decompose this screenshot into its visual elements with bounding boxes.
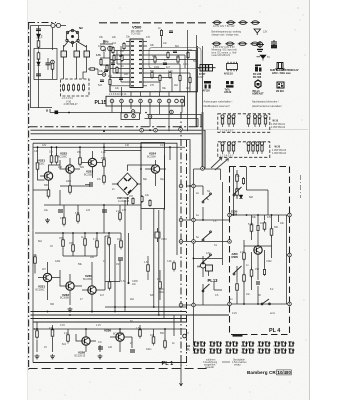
capacitor C502 — [163, 63, 167, 65]
switch S6 — [261, 299, 270, 305]
resistor R401 — [236, 173, 239, 184]
wire PL1 bottom solid — [33, 362, 186, 364]
wire cross 258 — [194, 182, 223, 265]
potentiometer P501 — [101, 46, 106, 51]
pad PL4-3 — [288, 253, 292, 257]
resistor R237 — [34, 255, 37, 266]
resistor R412 — [236, 282, 239, 293]
connector group G7 — [288, 342, 294, 355]
left outer cluster — [100, 40, 113, 65]
junction J10 — [119, 328, 121, 330]
transistor V236 — [116, 333, 124, 341]
wire bus line 5 — [33, 143, 177, 255]
junction J5 — [79, 146, 81, 148]
svg-text:8k2: 8k2 — [175, 45, 180, 48]
connector group G2 — [209, 342, 222, 355]
wire PL1 bottom dashed — [29, 368, 208, 370]
svg-text:2n2: 2n2 — [112, 42, 117, 45]
wire bus faint continuation — [205, 129, 308, 131]
resistor R224 — [103, 158, 106, 169]
pad square S1 — [55, 111, 59, 115]
wire PL4 inner rail 190 — [247, 190, 269, 215]
resistor R508 — [169, 71, 171, 79]
resistor W20-7 — [260, 142, 263, 154]
wire V232 stage — [60, 270, 82, 305]
resistor W10-2 — [227, 115, 230, 127]
symbol lens row2 — [212, 42, 260, 46]
connector group G6 — [274, 342, 287, 355]
svg-text:120: 120 — [108, 346, 113, 349]
capacitor C221 — [102, 210, 107, 212]
capacitor C504 — [111, 63, 115, 65]
diode V2 — [37, 59, 40, 71]
wire PL4 inner rail 211 — [230, 214, 290, 216]
wire PL4 rail 246 — [244, 236, 272, 258]
junction J6 — [140, 168, 142, 170]
lamp H2 — [183, 334, 187, 338]
junction small — [145, 112, 147, 114]
resistor R240 — [51, 328, 54, 339]
capacitor C223 — [58, 210, 63, 212]
resistor R251 — [141, 195, 143, 203]
resistor R244 — [164, 339, 167, 350]
resistor R510 — [189, 76, 191, 84]
pad PA2 — [192, 184, 196, 188]
wire module top dashed border — [99, 22, 207, 24]
svg-text:12V: 12V — [206, 252, 211, 255]
svg-text:390: 390 — [50, 303, 55, 306]
junction J2 — [154, 128, 158, 132]
resistor R236 — [120, 239, 123, 250]
pad P3 — [170, 110, 174, 114]
resistor R225 — [103, 174, 106, 185]
resistor R507 — [159, 74, 161, 82]
capacitor C401 — [256, 282, 260, 284]
resistor R518 — [109, 78, 111, 86]
pad PD2 — [192, 303, 196, 307]
wire bottom drops — [37, 315, 174, 352]
svg-text:2k2: 2k2 — [130, 298, 135, 301]
wire lower bus 3 — [31, 318, 187, 320]
wire right short stub — [287, 254, 290, 256]
resistor R7 — [72, 84, 74, 92]
wire arrows to W20 — [211, 158, 229, 171]
wire pad link — [98, 69, 102, 75]
pad PL4-4 — [288, 302, 292, 306]
wire V222 stage — [60, 158, 80, 186]
svg-text:1.2V: 1.2V — [96, 324, 101, 327]
resistor R505 — [187, 51, 189, 59]
wire chassis top dash-dot border — [28, 22, 56, 24]
svg-text:220k: 220k — [66, 180, 72, 183]
resistor R252 — [149, 199, 151, 207]
capacitor C507 — [104, 70, 108, 72]
wire lower stage rails — [35, 233, 121, 244]
svg-text:5n6: 5n6 — [98, 84, 103, 87]
wire H4 drop — [202, 256, 204, 305]
resistor R4 — [51, 61, 54, 72]
transistor V221 — [44, 172, 52, 180]
symbol glyph row4 d — [277, 82, 284, 88]
potentiometer P502 — [108, 46, 113, 51]
symbol lens row1 a — [212, 21, 260, 25]
wire cross 186 — [187, 186, 204, 195]
svg-text:30p: 30p — [160, 178, 165, 181]
wire mid verticals — [105, 200, 186, 319]
resistor W10-7 — [264, 115, 267, 127]
wire 205-230 zone — [44, 205, 141, 233]
symbol arrow A1 — [254, 29, 261, 35]
wire box leads down — [64, 57, 87, 79]
svg-text:470: 470 — [122, 209, 127, 212]
resistor W20-3 — [232, 142, 235, 154]
resistor R232 — [72, 243, 75, 254]
transistor V226 — [82, 337, 90, 345]
wire right column — [141, 147, 170, 230]
resistor R250 — [132, 197, 134, 205]
pin ticks left — [126, 42, 147, 86]
transistor V232 — [66, 282, 74, 290]
wire module boundary dash-dot 2 — [186, 140, 188, 366]
pad PL4-1 — [228, 240, 232, 244]
box shield rounded — [149, 48, 201, 69]
svg-text:4u7: 4u7 — [100, 294, 105, 297]
resistor R6 — [67, 84, 69, 92]
svg-text:1k2: 1k2 — [236, 188, 241, 191]
component dark bar below PL4 — [233, 334, 243, 337]
capacitor C506 — [100, 80, 104, 82]
wire link rail2 — [145, 119, 199, 127]
wire lower bus 1 — [31, 311, 187, 313]
resistor R239 — [36, 329, 39, 340]
wire bottom-left tails — [180, 330, 194, 386]
pad P1 on module edge — [102, 73, 106, 77]
wire V230 stage — [82, 262, 105, 312]
junction J3 — [179, 128, 183, 132]
switch S4 — [202, 254, 211, 264]
wires module left side — [110, 46, 126, 86]
transistor V402 — [254, 246, 262, 254]
resistor R503 — [167, 51, 169, 59]
wire bus line 2 — [31, 130, 206, 168]
svg-text:22n: 22n — [176, 55, 181, 58]
switch S3 — [202, 231, 211, 241]
symbol glyph row4 a — [204, 81, 211, 89]
capacitor C3 — [46, 58, 51, 70]
diode bridge V225 — [117, 173, 138, 195]
symbol arrow A2 — [257, 55, 267, 61]
svg-text:1M: 1M — [186, 87, 189, 90]
resistor R238 — [108, 280, 111, 291]
resistor R501 — [160, 29, 162, 37]
inductor L2 — [56, 23, 60, 27]
wire PL4 rail 304 — [230, 303, 290, 305]
capacitor C2 top-left — [36, 29, 41, 31]
resistor W10-3 — [232, 115, 235, 127]
resistor W10-6 — [258, 115, 261, 127]
resistor R9 — [82, 84, 84, 92]
wire cross 305 — [181, 304, 230, 306]
wire left chain — [31, 26, 53, 109]
connector group G1 — [193, 342, 206, 355]
resistor R403 — [242, 177, 244, 185]
capacitor C503 — [173, 51, 177, 53]
svg-text:120k: 120k — [55, 260, 61, 263]
junction C235 — [128, 282, 130, 284]
svg-text:6k8: 6k8 — [249, 196, 254, 199]
switch N2 rotary — [64, 29, 87, 47]
symbol glyph row4 c — [255, 80, 261, 88]
resistor R220 — [36, 161, 39, 172]
resistor R241 — [67, 333, 70, 344]
pad PC1 — [179, 240, 183, 244]
noise speckles — [33, 6, 307, 396]
resistor R10 h — [88, 68, 98, 70]
resistor R231 — [62, 238, 65, 249]
junction J7 — [103, 204, 105, 206]
resistor W20-1 — [221, 142, 224, 154]
svg-text:8k2: 8k2 — [38, 240, 43, 243]
resistor R228 — [63, 216, 66, 227]
wire left vertical — [30, 26, 32, 109]
connector PL16 small — [121, 113, 140, 120]
pad PC2 — [192, 240, 196, 244]
wire bottom stage rail — [33, 322, 186, 337]
resistor R234 — [96, 239, 99, 250]
svg-text:270: 270 — [150, 84, 155, 87]
svg-text:10n: 10n — [163, 42, 168, 45]
connector group G5 — [257, 342, 270, 355]
svg-text:220: 220 — [90, 256, 95, 259]
wire note arrow — [222, 361, 230, 363]
ground G4 — [98, 354, 103, 359]
box PL4 dashed — [230, 167, 290, 335]
wire V226 — [76, 334, 96, 352]
symbol IC legend — [227, 62, 238, 72]
wire pl15 link rail — [147, 115, 201, 128]
resistor R407 — [270, 227, 273, 238]
pad P0 — [51, 60, 55, 64]
resistor R402 — [236, 187, 239, 198]
symbol striped resistor legend — [197, 65, 216, 72]
wire cross 220 — [181, 207, 230, 220]
svg-text:560: 560 — [160, 332, 165, 335]
resistor R235 — [108, 236, 111, 247]
pin bars inside IC — [131, 42, 142, 86]
resistor R226 — [47, 188, 50, 199]
resistor R514 — [100, 58, 102, 66]
box W10 dashed — [218, 114, 270, 133]
transformer T2 — [74, 51, 80, 57]
wire PL1 right dash-dot boundary — [180, 112, 182, 368]
resistor R517 — [123, 42, 125, 50]
connector PL15 contacts — [110, 99, 184, 103]
pad P2 — [131, 110, 135, 114]
diode V401 — [239, 195, 243, 199]
svg-text:0.3V: 0.3V — [60, 324, 65, 327]
wire left drops — [33, 143, 104, 362]
transistor V224 — [151, 165, 159, 173]
op-amp U1 V500 IC body — [130, 39, 143, 88]
box module solid border — [110, 46, 197, 92]
wire bus line 3 — [31, 133, 202, 135]
svg-text:1n5: 1n5 — [86, 209, 91, 212]
wire mid horizontals — [33, 186, 90, 205]
wire lower bus 2 — [31, 314, 230, 316]
svg-text:6V: 6V — [130, 320, 133, 323]
resistor R3 — [37, 51, 40, 62]
wire V224 — [145, 160, 166, 186]
inductor L1 — [51, 23, 55, 27]
wire R501 drop — [161, 37, 163, 48]
capacitor C222 — [118, 258, 123, 260]
wires module right side — [147, 51, 196, 128]
symbol dark glyph legend right — [255, 65, 262, 72]
resistor R253 — [173, 261, 176, 272]
box oscillator V224 — [141, 143, 165, 209]
box W20 dashed — [218, 142, 270, 158]
wire bias cluster — [63, 246, 97, 256]
capacitor C501 — [169, 31, 173, 33]
transformer T3 — [84, 51, 90, 57]
diode V1 zener — [37, 34, 41, 38]
svg-text:10u: 10u — [44, 209, 49, 212]
resistor R515 — [106, 64, 108, 72]
svg-text:150: 150 — [188, 49, 193, 52]
junction J4 — [103, 146, 105, 148]
svg-text:100k: 100k — [154, 66, 160, 69]
wire V236 — [110, 329, 132, 352]
wire left dash-dot border PL1 — [28, 23, 30, 371]
wire PL13 link — [209, 271, 223, 290]
resistor R409 — [250, 268, 253, 279]
connector group G3 — [225, 342, 238, 355]
svg-text:2k7: 2k7 — [42, 268, 47, 271]
wire thick drop — [202, 112, 204, 168]
wire bus line 1 dash-dot — [29, 126, 205, 128]
wire PL4 top verticals — [234, 167, 247, 216]
transistor V223 — [88, 158, 96, 166]
svg-text:1k5: 1k5 — [124, 73, 129, 76]
junction J9 — [91, 311, 93, 313]
switch S8 — [233, 266, 241, 275]
wire cross 241 — [181, 240, 230, 242]
resistor R405 — [257, 224, 259, 232]
resistor R227 — [69, 184, 72, 195]
transformer T1 — [61, 51, 67, 57]
resistor R404 — [250, 223, 253, 234]
svg-text:6k8: 6k8 — [111, 59, 116, 62]
svg-text:820: 820 — [150, 294, 155, 297]
wire inner box — [194, 169, 221, 345]
pad PB2 — [192, 218, 196, 222]
resistor R406 — [263, 221, 266, 232]
resistor R8 — [77, 84, 79, 92]
pad PL4-2 — [288, 213, 292, 217]
resistor R509 — [179, 74, 181, 82]
wire bridge — [104, 165, 156, 205]
wire verticals to bus — [188, 30, 203, 131]
svg-text:4V: 4V — [186, 332, 189, 335]
svg-text:3k3: 3k3 — [152, 55, 157, 58]
resistor R222 — [55, 154, 58, 165]
resistor R2 — [37, 39, 40, 50]
wire bus line 4 — [31, 140, 191, 220]
pad PL4-0 — [228, 213, 232, 217]
resistor R410 — [263, 268, 265, 276]
box bamberg num underline — [277, 370, 292, 375]
svg-text:4n7: 4n7 — [166, 66, 171, 69]
wire dashdot right short — [300, 175, 302, 198]
resistor R504 — [177, 56, 179, 64]
svg-text:680: 680 — [44, 184, 49, 187]
resistor R411 — [243, 273, 246, 284]
capacitor C224 — [98, 347, 103, 349]
resistor W10-4 — [247, 115, 250, 127]
capacitor C225 — [130, 350, 135, 352]
wire V231 stage — [35, 262, 60, 300]
resistor R516 — [113, 54, 115, 62]
resistor R242 — [139, 328, 142, 339]
svg-text:15n: 15n — [116, 263, 121, 266]
connector group G4 — [241, 342, 254, 355]
wire PL15 drops — [112, 87, 182, 131]
resistor W10-1 — [221, 115, 224, 127]
junction J1 — [140, 128, 144, 132]
wire PL4 mid column — [252, 215, 279, 246]
box filter F1 — [34, 49, 57, 80]
wire R412 — [236, 266, 238, 304]
svg-text:1k8: 1k8 — [58, 166, 63, 169]
ground G2 — [68, 307, 73, 312]
resistor R221 — [50, 154, 53, 165]
svg-text:220: 220 — [108, 75, 113, 78]
svg-text:100n: 100n — [146, 348, 152, 351]
resistor R513 — [121, 54, 123, 62]
resistor W20-2 — [227, 142, 230, 154]
switch S7 — [233, 187, 241, 196]
symbol meter M1 — [256, 41, 264, 52]
resistor R5 — [62, 84, 64, 92]
resistor W20-5 — [251, 142, 254, 154]
resistor R511 — [112, 46, 114, 54]
wire right verticals lower — [105, 236, 120, 312]
resistor W20-6 — [256, 142, 259, 154]
ground G5 — [50, 354, 55, 359]
resistor R408 — [243, 251, 246, 262]
resistor R512 — [116, 66, 118, 74]
symbol B box — [276, 63, 285, 71]
transistor V222 — [66, 165, 74, 173]
resistor R223 — [79, 156, 82, 167]
junction J8 — [114, 311, 116, 313]
pad PD1 — [179, 303, 183, 307]
svg-text:0.2V: 0.2V — [232, 312, 237, 315]
wire top rail — [31, 25, 67, 27]
pad PE1 — [201, 167, 205, 171]
svg-text:47u: 47u — [97, 178, 102, 181]
box PL15 — [106, 96, 185, 106]
lamp H4 — [200, 263, 205, 268]
wire rail 155 partial — [104, 143, 141, 169]
wire V221 stage — [38, 165, 61, 190]
svg-text:68p: 68p — [143, 178, 148, 181]
ground G3 — [35, 354, 40, 359]
svg-text:2k2: 2k2 — [174, 84, 179, 87]
resistor R243 — [152, 335, 155, 346]
ground G1 — [45, 218, 50, 223]
wire R245 links — [148, 256, 160, 300]
